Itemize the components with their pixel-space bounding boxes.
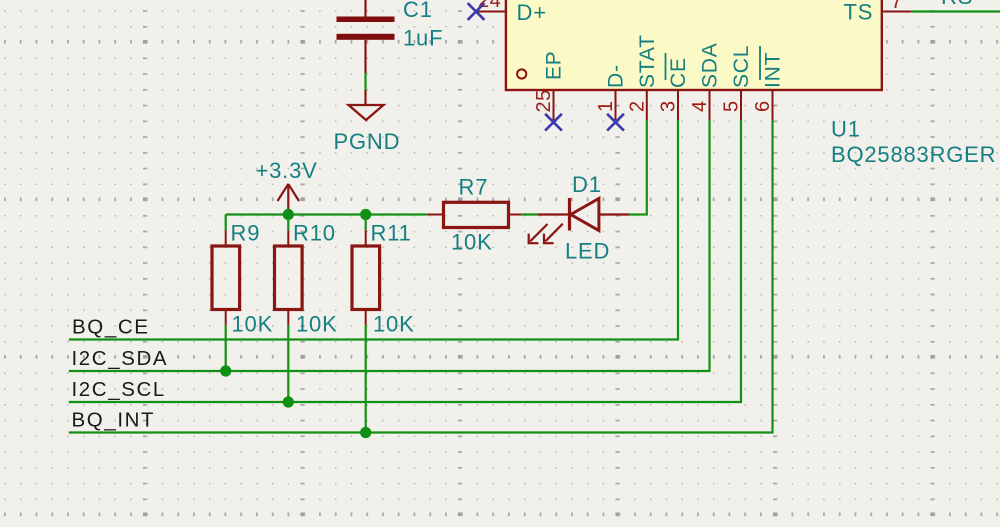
wire net I2C_SCL from label to pin 5 <box>69 120 741 402</box>
no-connect X on pin 24 <box>468 3 485 20</box>
svg-text:2: 2 <box>626 100 648 112</box>
no-connect X on pin 25 <box>545 114 562 131</box>
wire rail down to R10 <box>287 215 289 231</box>
wire net BQ_CE from label to pin 3 <box>69 120 678 340</box>
svg-text:1uF: 1uF <box>403 26 443 51</box>
wire net I2C_SDA from label to pin 4 <box>69 120 710 371</box>
resistor R11 <box>352 221 415 337</box>
junction R11/BQ_INT <box>360 427 371 438</box>
junction rail/R10 <box>283 209 294 220</box>
pin 24 D+ (left side, no-connect) <box>476 0 506 12</box>
svg-text:LED: LED <box>565 239 610 264</box>
wire R11 down to BQ_INT <box>365 325 367 432</box>
wire R9 down to I2C_SDA <box>225 325 227 371</box>
svg-text:R10: R10 <box>293 221 336 246</box>
svg-text:D1: D1 <box>572 172 602 197</box>
LED emission arrow 2 <box>544 224 563 244</box>
svg-text:1: 1 <box>595 100 617 112</box>
wire rail down to R9 <box>225 215 227 231</box>
svg-text:I2C_SDA: I2C_SDA <box>72 347 169 370</box>
no-connect X on pin 1 <box>607 114 624 131</box>
EP thermal pad circle <box>517 69 526 78</box>
svg-text:3: 3 <box>658 100 680 112</box>
op-amp U1 body (charger IC BQ25883) <box>506 0 882 90</box>
power symbol +3.3V <box>256 158 318 215</box>
svg-text:D+: D+ <box>517 0 547 25</box>
svg-text:SCL: SCL <box>730 45 753 88</box>
wire R10 down to I2C_SCL <box>287 325 289 402</box>
svg-text:STAT: STAT <box>636 34 659 88</box>
svg-text:25: 25 <box>533 89 555 112</box>
svg-text:RS: RS <box>941 0 973 9</box>
svg-text:BQ25883RGER: BQ25883RGER <box>831 142 996 167</box>
svg-text:U1: U1 <box>831 117 861 142</box>
svg-text:EP: EP <box>543 50 566 80</box>
svg-text:C1: C1 <box>403 0 433 22</box>
pin 7 TS (right side) <box>882 0 912 13</box>
U1 reference and value <box>831 117 996 168</box>
svg-text:R7: R7 <box>459 175 489 200</box>
junction rail/R11 <box>360 209 371 220</box>
pin 2 STAT <box>626 34 659 120</box>
svg-text:INT: INT <box>762 52 785 88</box>
svg-text:CE: CE <box>667 57 690 88</box>
junction R9/I2C_SDA <box>220 365 231 376</box>
wire net BQ_INT from label to pin 6 <box>69 120 773 433</box>
capacitor C1 <box>337 0 444 73</box>
pin 5 SCL <box>721 45 754 120</box>
wire rail down to R11 <box>365 215 367 231</box>
wire C1 to PGND <box>364 73 366 90</box>
svg-text:BQ_CE: BQ_CE <box>72 316 150 339</box>
junction R10/I2C_SCL <box>283 396 294 407</box>
wire +3.3V rail <box>226 213 428 215</box>
svg-text:10K: 10K <box>296 312 338 337</box>
svg-text:10K: 10K <box>373 312 415 337</box>
svg-text:10K: 10K <box>232 312 274 337</box>
svg-text:BQ_INT: BQ_INT <box>72 409 156 432</box>
svg-text:R9: R9 <box>231 221 261 246</box>
svg-text:7: 7 <box>891 0 903 13</box>
wire TS to edge <box>912 10 1000 12</box>
svg-text:6: 6 <box>752 100 774 112</box>
svg-text:D-: D- <box>605 64 628 88</box>
svg-text:PGND: PGND <box>334 129 401 154</box>
LED emission arrow 1 <box>529 224 548 243</box>
svg-text:I2C_SCL: I2C_SCL <box>72 378 166 401</box>
LED D1 <box>529 172 629 264</box>
pin 3 CE (active low) <box>658 53 691 120</box>
svg-text:R11: R11 <box>371 221 412 246</box>
svg-text:10K: 10K <box>451 230 493 255</box>
pin 4 SDA <box>689 42 722 120</box>
pin 25 EP (bottom, no-connect) <box>533 50 566 120</box>
resistor R10 <box>275 221 338 337</box>
svg-text:TS: TS <box>844 0 874 25</box>
ground PGND <box>334 90 401 154</box>
svg-text:5: 5 <box>721 100 743 112</box>
svg-text:+3.3V: +3.3V <box>256 158 318 183</box>
wire R7 to D1 <box>521 213 538 215</box>
svg-text:4: 4 <box>689 100 711 112</box>
wire D1 to STAT corner <box>629 120 647 215</box>
resistor R7 <box>428 175 521 255</box>
pin 1 D- (bottom, no-connect) <box>595 64 628 120</box>
resistor R9 <box>212 221 273 337</box>
svg-text:SDA: SDA <box>699 42 722 88</box>
pin 6 INT (active low) <box>752 46 785 120</box>
